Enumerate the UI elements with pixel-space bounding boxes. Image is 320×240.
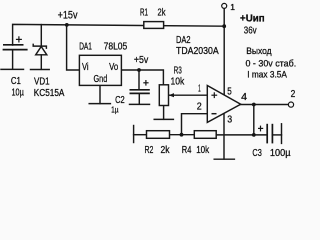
- wire R2 left: [134, 134, 147, 136]
- svg-text:R4: R4: [182, 144, 192, 156]
- wire pin5 supply: [223, 26, 225, 95]
- svg-text:+15v: +15v: [58, 9, 78, 21]
- capacitor C1 plus: [16, 36, 22, 42]
- svg-text:1: 1: [230, 2, 235, 12]
- wire C2 bottom stub: [138, 94, 140, 104]
- svg-text:2k: 2k: [161, 144, 171, 156]
- svg-text:TDA2030A: TDA2030A: [176, 45, 219, 57]
- ground VD1: [31, 69, 50, 71]
- svg-text:1µ: 1µ: [111, 105, 119, 115]
- svg-text:Gnd: Gnd: [94, 73, 108, 85]
- svg-text:Vi: Vi: [82, 61, 89, 73]
- terminal 1 circle: [222, 3, 227, 8]
- wire VD1 bottom stub: [40, 55, 42, 69]
- svg-text:10k: 10k: [171, 76, 185, 88]
- resistor R1: [144, 22, 164, 29]
- node junction feedback / C3: [252, 133, 256, 137]
- wire +15v top rail: [13, 24, 225, 45]
- node junction +5v / C2: [137, 68, 141, 72]
- svg-text:100µ: 100µ: [270, 147, 291, 159]
- node junction R2/R4/pin2: [180, 133, 184, 137]
- svg-text:DA1: DA1: [79, 40, 92, 52]
- svg-text:+Uип: +Uип: [240, 14, 265, 25]
- svg-text:3: 3: [227, 114, 232, 126]
- svg-text:Выход: Выход: [246, 46, 272, 56]
- svg-text:36v: 36v: [244, 26, 257, 37]
- wire DA1 output +5v rail: [121, 70, 163, 85]
- svg-text:R2: R2: [145, 144, 154, 156]
- capacitor C3 plates: [267, 124, 272, 144]
- ground C1: [1, 68, 24, 70]
- svg-text:I max 3.5A: I max 3.5A: [247, 70, 287, 81]
- svg-text:10k: 10k: [196, 144, 210, 156]
- svg-text:4: 4: [241, 91, 247, 103]
- svg-text:2: 2: [197, 100, 202, 112]
- wire terminal1 stub: [223, 8, 225, 26]
- svg-text:Vo: Vo: [109, 61, 118, 73]
- resistor R4: [194, 131, 216, 139]
- ground DA1: [89, 103, 110, 105]
- node junction output drop: [252, 103, 256, 107]
- svg-text:0 - 30v стаб.: 0 - 30v стаб.: [246, 58, 297, 69]
- node junction +Uip / R1 / pin5: [222, 24, 226, 28]
- wire R3 wiper to pin1: [169, 94, 208, 96]
- svg-text:1: 1: [198, 83, 201, 95]
- wire pin2: [182, 114, 208, 135]
- svg-text:5: 5: [227, 85, 232, 97]
- terminal 2 circle: [288, 102, 293, 107]
- svg-text:+5v: +5v: [134, 55, 148, 66]
- wire C2 top stub: [138, 70, 140, 89]
- svg-text:VD1: VD1: [34, 75, 50, 87]
- diode VD1 zener: [33, 44, 47, 55]
- ground pin3: [214, 158, 234, 160]
- capacitor C2 plus: [143, 80, 148, 86]
- box DA1 78L05: [79, 55, 121, 85]
- node junction +15v rail / DA1 input: [65, 23, 69, 27]
- wire VD1 top stub: [40, 25, 42, 46]
- svg-text:C1: C1: [11, 75, 21, 87]
- svg-text:10µ: 10µ: [12, 87, 24, 99]
- ground C3 right: [281, 124, 283, 144]
- wire output drop to feedback node: [253, 105, 255, 136]
- wire DA1 input drop: [67, 25, 80, 70]
- svg-text:2: 2: [291, 88, 296, 100]
- wire output pin4: [241, 104, 289, 106]
- wire DA1 Gnd stub: [99, 85, 101, 103]
- svg-text:78L05: 78L05: [104, 40, 128, 52]
- svg-text:C3: C3: [252, 147, 262, 159]
- ground C2: [130, 103, 150, 105]
- svg-text:R1: R1: [140, 7, 148, 19]
- op-amp U DA2 triangle: [207, 86, 240, 123]
- wire pin3 to ground: [223, 113, 225, 159]
- svg-text:KC515A: KC515A: [34, 88, 65, 99]
- potentiometer R3 wiper arrow: [169, 93, 174, 97]
- op-amp minus input sign: [212, 113, 217, 115]
- capacitor C3 plus: [258, 126, 263, 132]
- wire R3 bottom stub: [163, 106, 165, 120]
- resistor R3: [159, 85, 168, 106]
- ground R2 left: [133, 126, 135, 143]
- wire C1 bottom stub: [12, 50, 14, 69]
- wire C3 to ground bar: [272, 134, 281, 136]
- ground R3: [154, 118, 173, 120]
- wire R2 to R4: [170, 134, 195, 136]
- capacitor C1 plates: [3, 45, 28, 50]
- resistor R2: [147, 131, 170, 139]
- wire R4 to C3 node: [216, 134, 267, 136]
- svg-text:DA2: DA2: [176, 34, 191, 46]
- op-amp plus input sign: [211, 92, 217, 98]
- svg-text:2k: 2k: [158, 7, 167, 19]
- capacitor C2 plates: [130, 90, 150, 94]
